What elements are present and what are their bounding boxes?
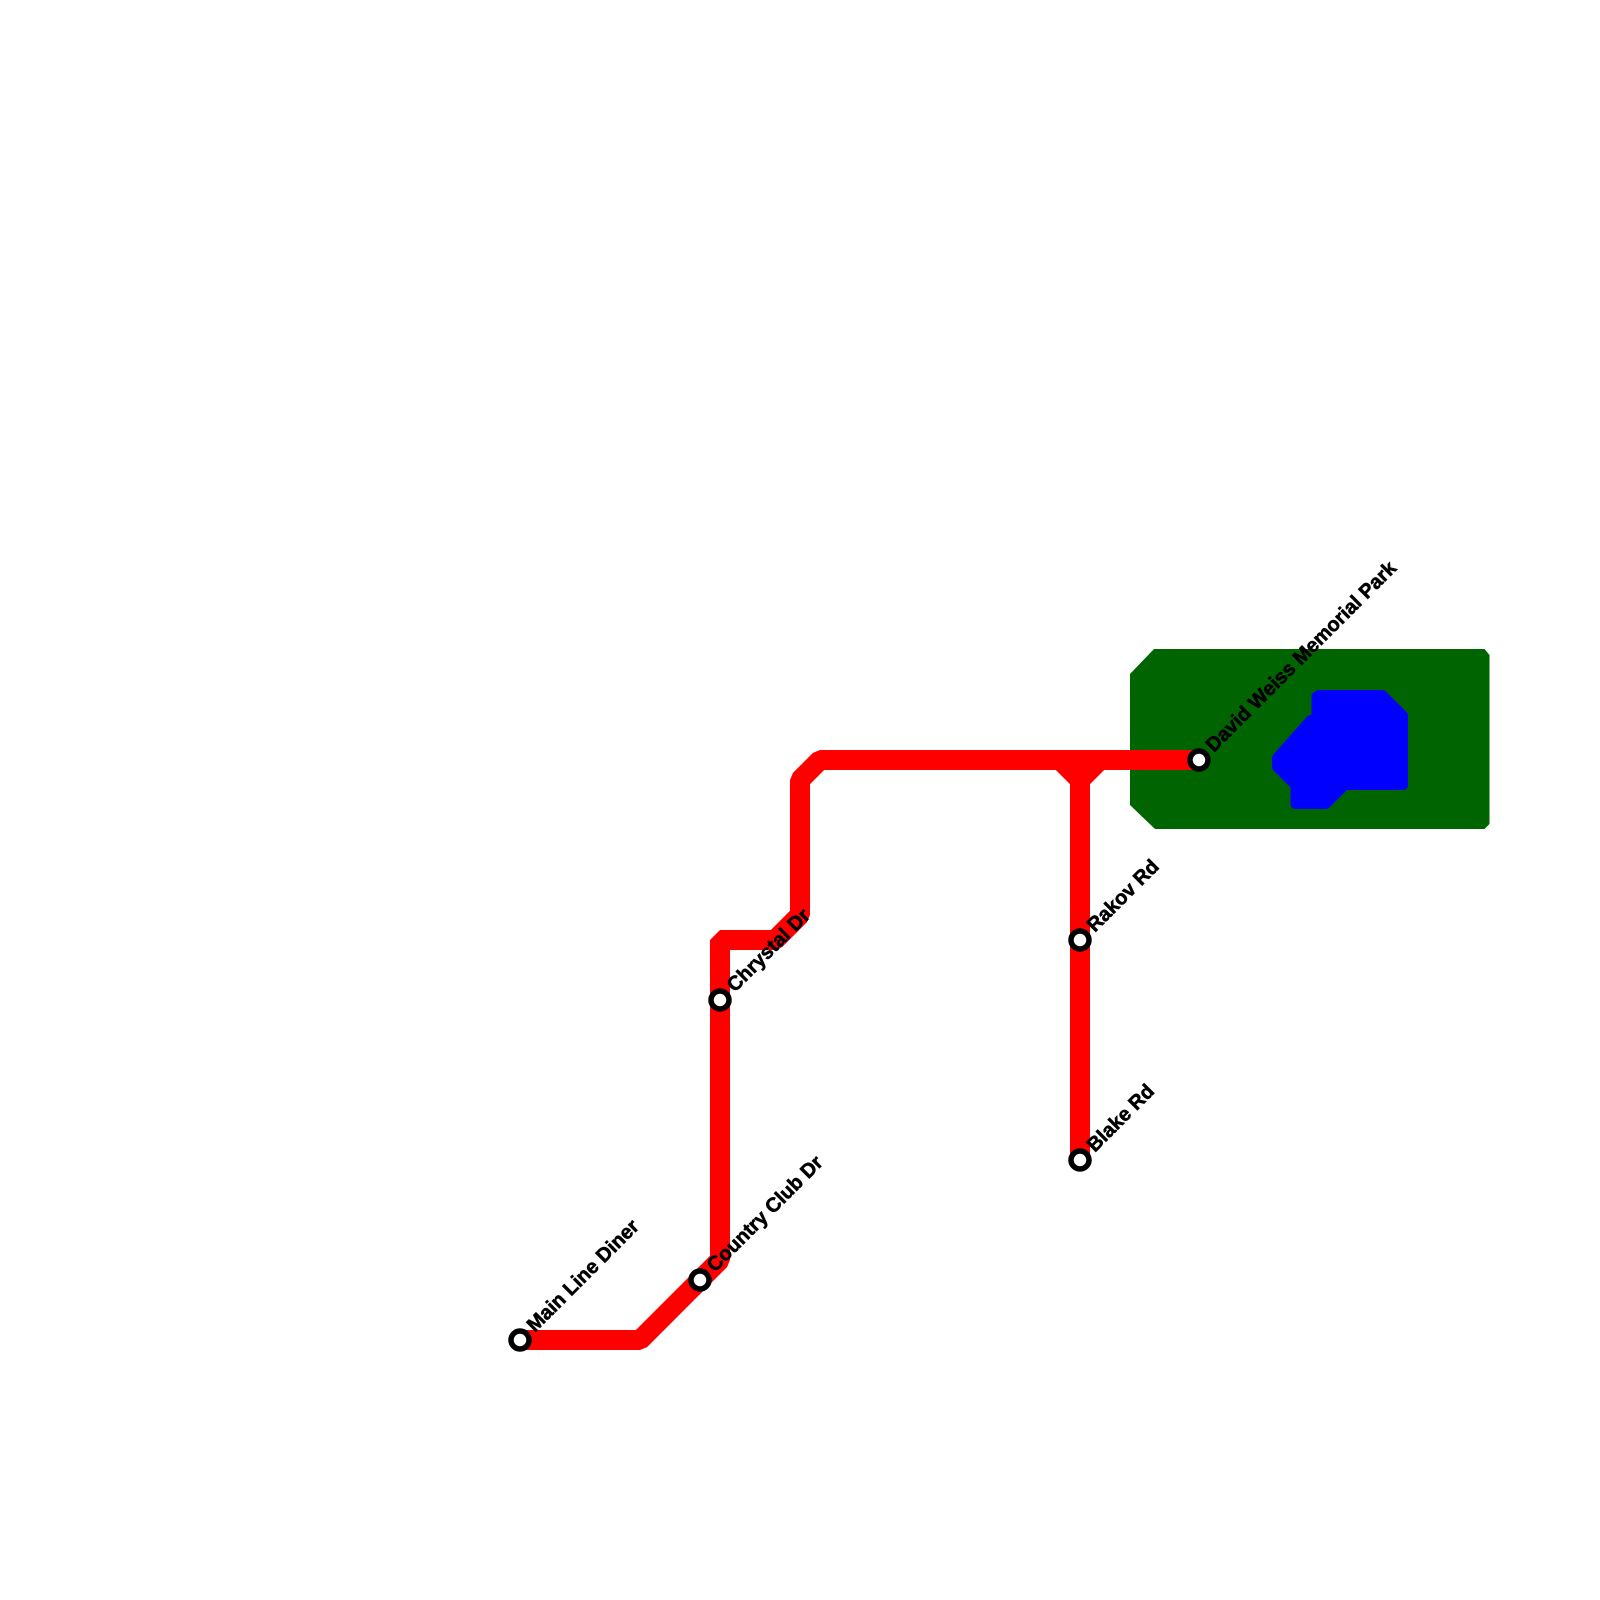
node Main Line Diner [511, 1215, 644, 1349]
node Chrystal Dr [711, 905, 815, 1009]
node Blake Rd [1071, 1080, 1159, 1169]
wire: branch down to Blake Rd (left turn) [1060, 760, 1080, 1160]
node David Weiss Memorial Park [1190, 557, 1402, 769]
node Country Club Dr [691, 1152, 828, 1289]
lake inside park [1277, 695, 1404, 805]
park: David Weiss Memorial Park green area [1130, 649, 1490, 829]
node Rakov Rd [1071, 856, 1164, 949]
wire: main red route Main Line Diner to park [520, 760, 1199, 1340]
wire: branch flare from the right side [1080, 760, 1100, 780]
